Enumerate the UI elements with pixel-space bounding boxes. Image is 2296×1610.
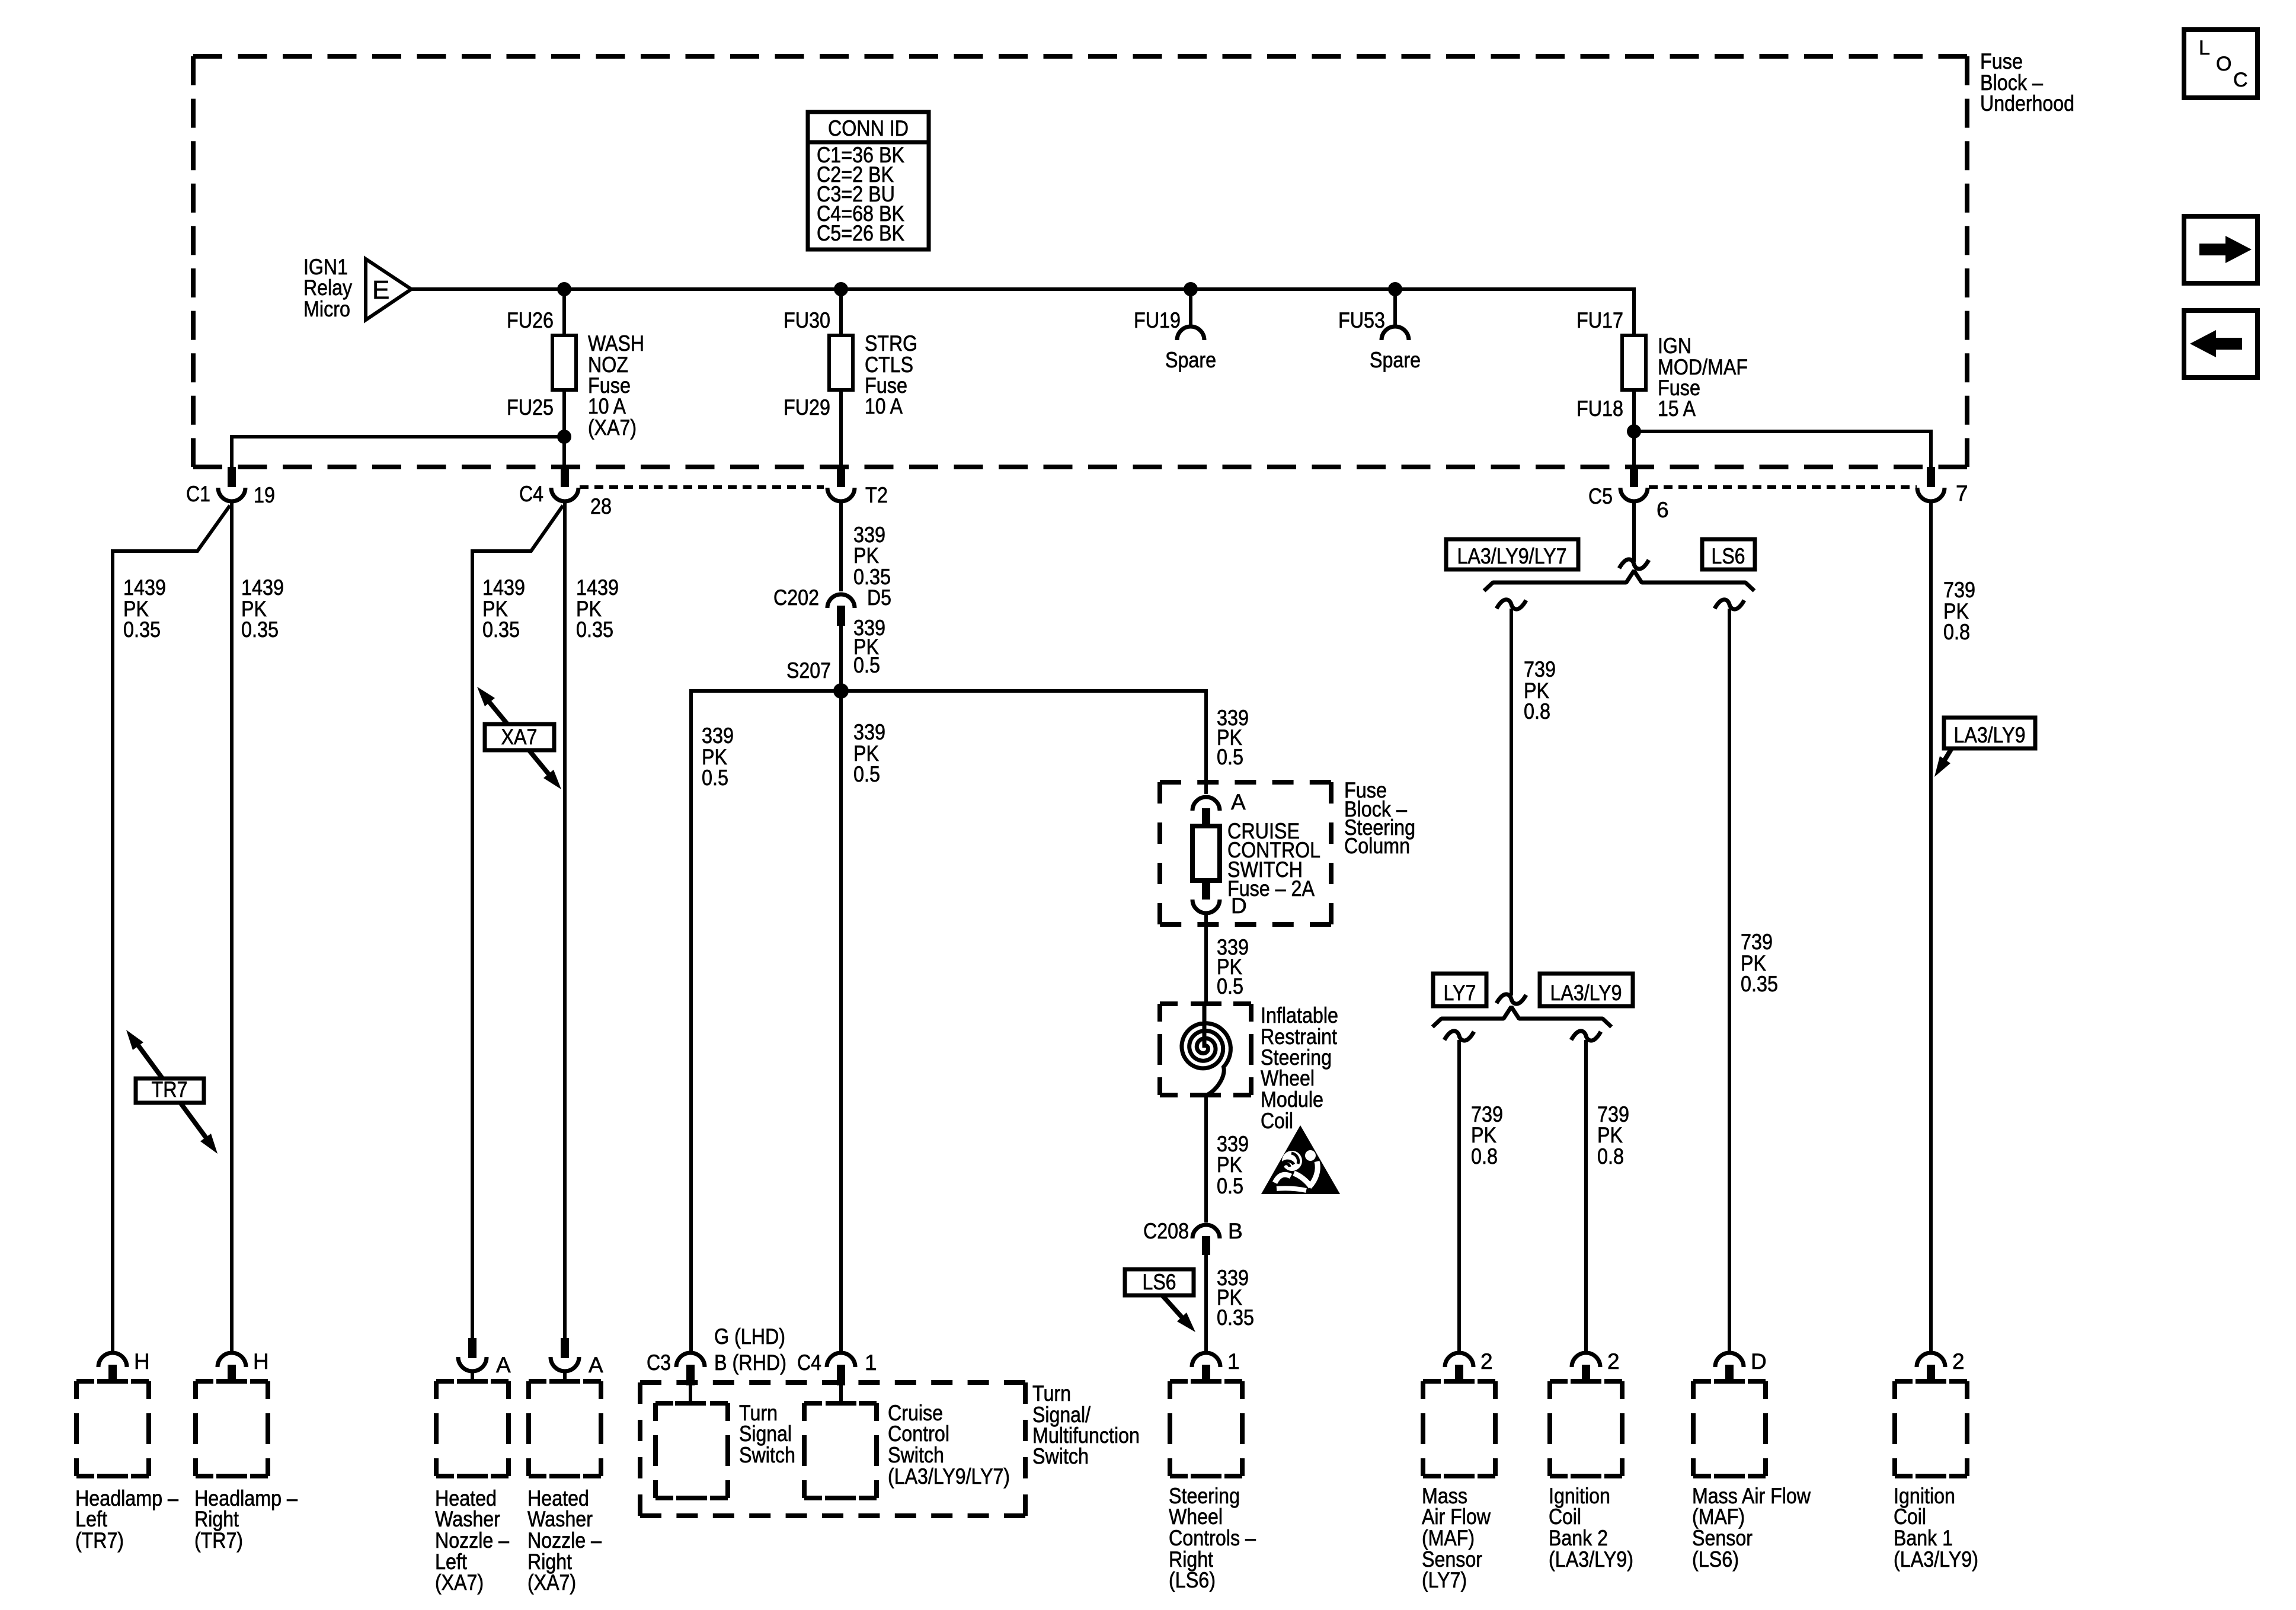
LOC legend box bbox=[2184, 30, 2257, 98]
ignition coil bank 1 box bbox=[1895, 1379, 1967, 1384]
brace LY7 LA3/LY9 split bbox=[1432, 1007, 1611, 1027]
terminal FU53 spare bbox=[1382, 327, 1409, 340]
svg-text:2: 2 bbox=[1480, 1349, 1493, 1374]
svg-text:739: 739 bbox=[1741, 930, 1773, 954]
svg-text:Fuse – 2A: Fuse – 2A bbox=[1227, 876, 1315, 901]
svg-text:PK: PK bbox=[1471, 1123, 1496, 1147]
svg-text:PK: PK bbox=[1217, 1153, 1242, 1177]
svg-text:Washer: Washer bbox=[527, 1507, 593, 1531]
connector C4 cavity 1 bbox=[827, 1353, 855, 1367]
svg-text:B: B bbox=[1228, 1219, 1243, 1243]
connector row dotted line C5 to 7 bbox=[1649, 485, 1917, 489]
wire S207 right branch to fuse block steering column bbox=[1204, 689, 1208, 794]
svg-text:Signal: Signal bbox=[739, 1422, 792, 1446]
svg-text:Controls –: Controls – bbox=[1169, 1526, 1256, 1550]
svg-text:FU26: FU26 bbox=[507, 308, 554, 332]
svg-text:FU17: FU17 bbox=[1576, 308, 1623, 332]
svg-text:0.8: 0.8 bbox=[1943, 620, 1970, 644]
svg-text:(XA7): (XA7) bbox=[527, 1570, 576, 1595]
connector cavity 2 bbox=[1917, 1353, 1945, 1367]
fuse FU26 WASH NOZ 10A bbox=[552, 335, 576, 390]
svg-text:C4: C4 bbox=[797, 1350, 821, 1375]
svg-text:Bank 2: Bank 2 bbox=[1549, 1526, 1608, 1550]
svg-text:Control: Control bbox=[888, 1422, 949, 1446]
svg-text:1439: 1439 bbox=[482, 575, 525, 600]
LA3/LY9/LY7 label box bbox=[1446, 539, 1578, 569]
svg-text:B (RHD): B (RHD) bbox=[714, 1350, 786, 1375]
wire 339 PK 0.5 below coil bbox=[1204, 1095, 1208, 1222]
wire FU26 drop bbox=[562, 289, 566, 338]
LY7 label box bbox=[1433, 974, 1486, 1006]
node FU53 junction bbox=[1388, 282, 1402, 296]
splice S207 bbox=[833, 683, 849, 699]
LS6 option label box bbox=[1125, 1269, 1194, 1295]
wire fuse to FU25 junction bbox=[562, 390, 566, 468]
svg-text:C5: C5 bbox=[1588, 484, 1613, 508]
connector cavity A bbox=[468, 1338, 477, 1358]
wire FU53 drop bbox=[1393, 289, 1397, 327]
svg-text:(MAF): (MAF) bbox=[1422, 1526, 1475, 1550]
svg-text:(XA7): (XA7) bbox=[588, 415, 637, 440]
wire 339 PK 0.35 from T2 bbox=[839, 503, 843, 591]
wire FU18 branch to pin 7 bbox=[1634, 431, 1931, 468]
svg-text:FU30: FU30 bbox=[784, 308, 830, 332]
svg-text:(LY7): (LY7) bbox=[1422, 1568, 1467, 1592]
svg-text:0.35: 0.35 bbox=[123, 617, 161, 642]
svg-text:(LA3/LY9): (LA3/LY9) bbox=[1549, 1547, 1633, 1571]
svg-text:C4: C4 bbox=[519, 482, 543, 506]
wire bus corner to FU17 bbox=[1632, 287, 1636, 338]
node FU19 junction bbox=[1184, 282, 1198, 296]
IGN1 relay source triangle E bbox=[366, 259, 411, 320]
wire 1439 PK branch to headlamp left bbox=[113, 505, 230, 1351]
svg-text:28: 28 bbox=[590, 494, 612, 518]
wire cavity 7 down 739 PK 0.8 bbox=[1929, 503, 1933, 1351]
svg-text:0.8: 0.8 bbox=[1597, 1144, 1624, 1169]
svg-text:0.5: 0.5 bbox=[1217, 974, 1243, 998]
svg-text:1: 1 bbox=[865, 1350, 877, 1375]
svg-text:0.5: 0.5 bbox=[853, 762, 880, 786]
LS6 label box bbox=[1702, 539, 1755, 569]
svg-text:Underhood: Underhood bbox=[1980, 91, 2074, 116]
inflatable restraint coil dashed box bbox=[1160, 1001, 1251, 1006]
svg-text:19: 19 bbox=[254, 483, 275, 507]
CONN ID table bbox=[808, 112, 929, 249]
svg-text:0.35: 0.35 bbox=[241, 617, 279, 642]
wire S207 middle branch to cruise control switch bbox=[839, 691, 843, 1351]
svg-text:Nozzle –: Nozzle – bbox=[435, 1528, 509, 1553]
coil spiral bbox=[1182, 1006, 1230, 1096]
right arrow legend box bbox=[2184, 216, 2257, 283]
svg-text:0.5: 0.5 bbox=[1217, 745, 1243, 769]
wire LA3/LY9 branch 739 PK 0.8 bbox=[1571, 1031, 1601, 1041]
svg-text:Sensor: Sensor bbox=[1692, 1526, 1753, 1550]
heated washer nozzle left box bbox=[436, 1379, 509, 1384]
node FU26 junction bbox=[557, 282, 571, 296]
svg-text:Switch: Switch bbox=[1032, 1444, 1089, 1468]
svg-text:Nozzle –: Nozzle – bbox=[527, 1528, 602, 1553]
svg-text:C1: C1 bbox=[186, 482, 210, 506]
wire 339 PK 0.5 to S207 bbox=[839, 626, 843, 691]
svg-text:Column: Column bbox=[1344, 834, 1410, 858]
svg-text:(LS6): (LS6) bbox=[1692, 1547, 1739, 1571]
mass air flow sensor LS6 box bbox=[1693, 1379, 1766, 1384]
connector row dotted line C4 to T2 bbox=[580, 485, 824, 489]
svg-text:739: 739 bbox=[1524, 657, 1556, 681]
svg-text:LA3/LY9/LY7: LA3/LY9/LY7 bbox=[1457, 544, 1567, 568]
svg-text:Fuse: Fuse bbox=[1980, 49, 2023, 73]
svg-text:0.35: 0.35 bbox=[482, 617, 520, 642]
turn signal multifunction switch outer dashed box bbox=[640, 1380, 1025, 1385]
TR7 option arrow bbox=[133, 1039, 210, 1144]
svg-text:C3: C3 bbox=[647, 1350, 671, 1375]
svg-text:2: 2 bbox=[1607, 1349, 1620, 1374]
svg-text:0.8: 0.8 bbox=[1524, 699, 1550, 724]
svg-text:LY7: LY7 bbox=[1444, 981, 1476, 1005]
svg-text:Washer: Washer bbox=[435, 1507, 500, 1531]
wire fuse FU29 down bbox=[839, 390, 843, 468]
wire S207 left branch to turn signal switch bbox=[689, 689, 693, 1351]
steering wheel controls right box bbox=[1170, 1379, 1242, 1384]
svg-text:T2: T2 bbox=[865, 483, 888, 507]
svg-text:H: H bbox=[253, 1349, 269, 1374]
svg-text:H: H bbox=[134, 1349, 150, 1374]
fuse block underhood dashed box bbox=[193, 54, 1967, 59]
svg-text:Right: Right bbox=[194, 1507, 239, 1531]
svg-text:(MAF): (MAF) bbox=[1692, 1505, 1745, 1529]
connector cavity 1 bbox=[1192, 1353, 1220, 1367]
wire LS6 branch 739 PK 0.35 bbox=[1715, 600, 1744, 609]
wire C5 cavity 6 down bbox=[1632, 503, 1636, 562]
svg-text:(LA3/LY9/LY7): (LA3/LY9/LY7) bbox=[888, 1464, 1010, 1489]
svg-text:(TR7): (TR7) bbox=[194, 1528, 243, 1553]
svg-text:339: 339 bbox=[853, 720, 885, 744]
turn signal switch inner dashed box bbox=[655, 1401, 728, 1406]
svg-text:Module: Module bbox=[1261, 1087, 1323, 1112]
LS6 arrow bbox=[1162, 1295, 1188, 1324]
svg-text:6: 6 bbox=[1657, 498, 1669, 522]
wire 339 PK 0.5 below fuse block bbox=[1204, 915, 1208, 1006]
fuse cruise control switch 2A bbox=[1192, 826, 1220, 881]
svg-text:Left: Left bbox=[75, 1507, 108, 1531]
brace engine split bbox=[1484, 571, 1754, 591]
svg-text:1: 1 bbox=[1227, 1349, 1240, 1374]
svg-text:0.35: 0.35 bbox=[576, 617, 613, 642]
LA3/LY9 arrow bbox=[1940, 748, 1952, 768]
svg-text:15 A: 15 A bbox=[1658, 396, 1696, 421]
svg-text:D5: D5 bbox=[867, 585, 891, 610]
connector D cruise fuse bbox=[1192, 900, 1220, 913]
svg-text:IGN: IGN bbox=[1658, 334, 1691, 358]
connector C202 cavity D5 bbox=[827, 594, 855, 608]
svg-text:Air Flow: Air Flow bbox=[1422, 1505, 1491, 1529]
svg-text:D: D bbox=[1751, 1349, 1767, 1374]
connector C208 cavity B bbox=[1192, 1225, 1220, 1238]
wire C3 pin into switch bbox=[689, 1385, 692, 1403]
svg-text:PK: PK bbox=[853, 543, 879, 568]
connector cavity 2 bbox=[1445, 1353, 1473, 1367]
svg-text:Spare: Spare bbox=[1370, 348, 1421, 372]
svg-text:1439: 1439 bbox=[576, 575, 619, 600]
XA7 option arrow bbox=[483, 694, 555, 782]
headlamp left box bbox=[76, 1379, 149, 1384]
wire: ignition feed bus bbox=[411, 287, 1634, 291]
svg-text:XA7: XA7 bbox=[501, 725, 538, 749]
wire 1439 PK to headlamp right bbox=[230, 503, 234, 1351]
terminal FU19 spare bbox=[1177, 327, 1204, 340]
svg-text:LA3/LY9: LA3/LY9 bbox=[1954, 723, 2026, 747]
svg-text:FU18: FU18 bbox=[1576, 396, 1623, 421]
svg-text:Coil: Coil bbox=[1894, 1505, 1926, 1529]
svg-text:S207: S207 bbox=[786, 658, 831, 683]
connector cavity 7 bbox=[1927, 467, 1935, 487]
fuse FU17 IGN MOD/MAF 15A bbox=[1622, 335, 1646, 390]
connector A cruise fuse bbox=[1192, 797, 1220, 811]
node FU25 junction bbox=[557, 430, 571, 444]
connector cavity D bbox=[1715, 1353, 1744, 1367]
svg-text:Wheel: Wheel bbox=[1261, 1066, 1315, 1090]
svg-text:FU53: FU53 bbox=[1338, 308, 1385, 332]
svg-text:A: A bbox=[1231, 790, 1246, 814]
svg-text:1439: 1439 bbox=[123, 575, 166, 600]
connector cavity 2 bbox=[1572, 1353, 1600, 1367]
svg-text:339: 339 bbox=[702, 724, 734, 748]
svg-text:10 A: 10 A bbox=[865, 394, 903, 418]
svg-text:10 A: 10 A bbox=[588, 394, 626, 418]
svg-text:A: A bbox=[496, 1353, 511, 1377]
svg-text:Turn: Turn bbox=[1032, 1381, 1071, 1406]
connector cavity H bbox=[218, 1353, 246, 1367]
connector cavity H bbox=[98, 1353, 127, 1367]
svg-text:(LS6): (LS6) bbox=[1169, 1568, 1216, 1592]
wire 1439 PK branch to washer nozzle left bbox=[472, 505, 563, 1340]
svg-text:A: A bbox=[589, 1353, 603, 1377]
svg-text:2: 2 bbox=[1952, 1349, 1965, 1374]
wire 339 PK 0.35 to steering wheel controls bbox=[1204, 1255, 1208, 1352]
svg-text:CONN ID: CONN ID bbox=[828, 116, 909, 140]
LA3/LY9 label box bbox=[1540, 974, 1633, 1006]
svg-text:0.5: 0.5 bbox=[1217, 1174, 1243, 1198]
SIR caution triangle bbox=[1261, 1125, 1340, 1194]
wire LA3/LY9/LY7 branch 739 PK 0.8 bbox=[1496, 600, 1526, 609]
svg-text:1439: 1439 bbox=[241, 575, 284, 600]
svg-text:LS6: LS6 bbox=[1143, 1270, 1176, 1294]
svg-text:0.5: 0.5 bbox=[853, 653, 880, 677]
fuse block steering column dashed box bbox=[1160, 780, 1331, 785]
wire S207 horizontal bbox=[691, 689, 1206, 693]
node FU30 junction bbox=[834, 282, 848, 296]
svg-text:STRG: STRG bbox=[865, 331, 917, 356]
svg-text:0.5: 0.5 bbox=[702, 766, 728, 790]
LA3/LY9 option label box bbox=[1944, 718, 2035, 748]
wire LY7 branch 739 PK 0.8 bbox=[1444, 1031, 1474, 1041]
svg-text:0.35: 0.35 bbox=[1741, 972, 1778, 996]
svg-text:C202: C202 bbox=[773, 585, 819, 610]
svg-text:G (LHD): G (LHD) bbox=[714, 1324, 785, 1349]
svg-text:O: O bbox=[2216, 53, 2231, 75]
wire C4 pin into switch bbox=[839, 1385, 843, 1403]
wire FU25 to C1 bbox=[232, 437, 564, 468]
mass air flow sensor LY7 box bbox=[1423, 1379, 1495, 1384]
svg-text:PK: PK bbox=[1597, 1123, 1623, 1147]
svg-text:7: 7 bbox=[1956, 481, 1968, 505]
left arrow legend box bbox=[2184, 311, 2257, 377]
wire FU19 drop bbox=[1189, 289, 1192, 327]
svg-text:C208: C208 bbox=[1143, 1219, 1189, 1243]
svg-text:C5=26 BK: C5=26 BK bbox=[817, 221, 904, 245]
svg-text:Wheel: Wheel bbox=[1169, 1505, 1223, 1529]
svg-text:0.8: 0.8 bbox=[1471, 1144, 1498, 1169]
fuse FU30 STRG CTLS 10A bbox=[829, 335, 853, 390]
svg-text:739: 739 bbox=[1943, 578, 1975, 602]
svg-text:LA3/LY9: LA3/LY9 bbox=[1550, 981, 1622, 1005]
svg-text:FU25: FU25 bbox=[507, 395, 554, 420]
wire 1439 PK to washer nozzle right bbox=[563, 503, 567, 1340]
svg-text:Bank 1: Bank 1 bbox=[1894, 1526, 1953, 1550]
svg-text:(XA7): (XA7) bbox=[435, 1570, 484, 1595]
wire FU30 drop bbox=[839, 289, 843, 338]
svg-text:E: E bbox=[372, 276, 389, 305]
headlamp right box bbox=[196, 1379, 268, 1384]
svg-text:(LA3/LY9): (LA3/LY9) bbox=[1894, 1547, 1978, 1571]
node FU18 junction bbox=[1627, 424, 1641, 438]
connector C4 cavity 28 bbox=[561, 467, 569, 487]
TR7 label box bbox=[136, 1078, 204, 1103]
cruise control switch inner dashed box bbox=[804, 1401, 877, 1406]
heated washer nozzle right box bbox=[529, 1379, 601, 1384]
svg-text:L: L bbox=[2199, 37, 2210, 59]
svg-text:Spare: Spare bbox=[1165, 348, 1216, 372]
svg-text:TR7: TR7 bbox=[152, 1077, 188, 1102]
svg-text:FU19: FU19 bbox=[1134, 308, 1181, 332]
wire fuse to FU18 junction bbox=[1632, 390, 1636, 468]
svg-text:Coil: Coil bbox=[1549, 1505, 1581, 1529]
connector C1 cavity 19 bbox=[228, 467, 236, 487]
connector T2 bbox=[837, 467, 845, 487]
svg-text:C: C bbox=[2233, 69, 2248, 91]
svg-text:(TR7): (TR7) bbox=[75, 1528, 124, 1553]
XA7 label box bbox=[485, 724, 554, 750]
svg-text:0.35: 0.35 bbox=[1217, 1305, 1254, 1330]
connector cavity A bbox=[561, 1338, 569, 1358]
svg-text:FU29: FU29 bbox=[784, 395, 830, 420]
svg-text:Micro: Micro bbox=[303, 297, 350, 321]
svg-text:Coil: Coil bbox=[1261, 1109, 1293, 1133]
ignition coil bank 2 box bbox=[1550, 1379, 1622, 1384]
svg-text:WASH: WASH bbox=[588, 331, 644, 356]
svg-text:Inflatable: Inflatable bbox=[1261, 1003, 1338, 1028]
connector C5 cavity 6 bbox=[1630, 467, 1638, 487]
connector C3 cavity G/B bbox=[676, 1353, 705, 1367]
svg-text:Switch: Switch bbox=[888, 1443, 944, 1467]
svg-text:Relay: Relay bbox=[303, 276, 352, 300]
svg-text:LS6: LS6 bbox=[1712, 544, 1745, 568]
svg-text:Switch: Switch bbox=[739, 1443, 795, 1467]
